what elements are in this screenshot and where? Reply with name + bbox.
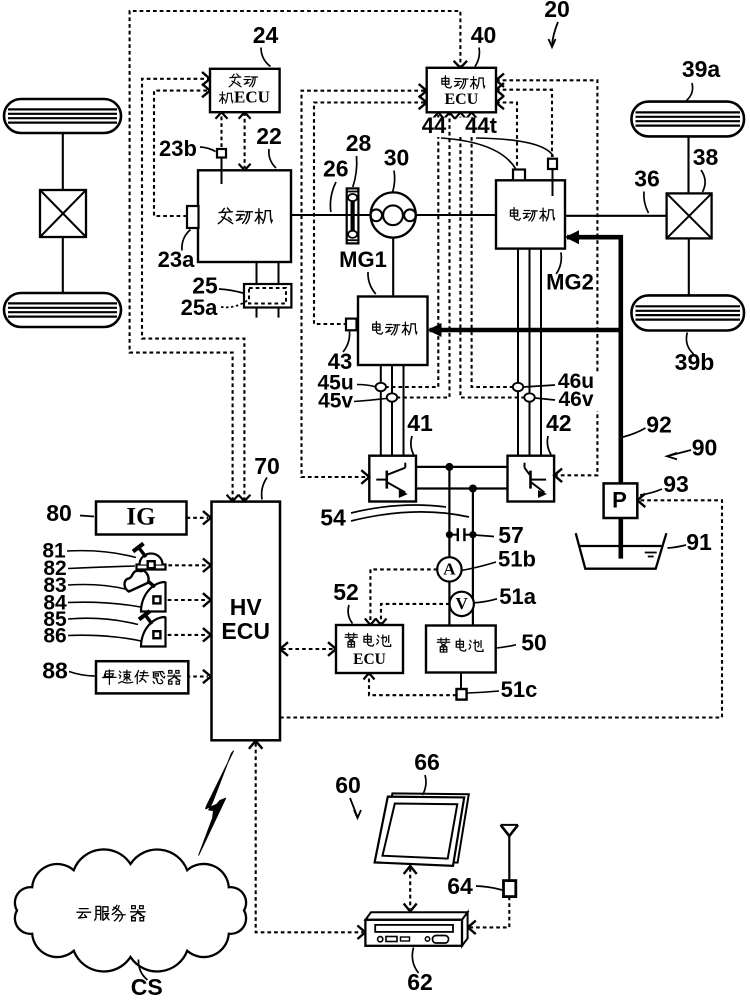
arrow 46v line into ECU bottom (455, 112, 466, 119)
arrow 20 (552, 22, 558, 45)
svg-text:25a: 25a (181, 295, 218, 320)
svg-text:P: P (612, 487, 627, 512)
inverter 42 (508, 456, 555, 502)
IG switch 80 box (96, 502, 187, 535)
navigation unit slot (375, 925, 453, 932)
engine ECU 24 box (210, 69, 280, 112)
svg-text:23b: 23b (159, 136, 197, 161)
front-left axle upper segment (62, 133, 64, 190)
leader 46u (524, 385, 556, 387)
svg-text:36: 36 (634, 166, 660, 192)
oil line 92: pump to MG2 (thick) (567, 237, 621, 484)
engine 22 box (198, 170, 291, 262)
wire current sensor 45v to motor-ECU (dashed) (397, 114, 450, 398)
svg-text:42: 42 (546, 410, 572, 436)
DC bus lower rail (416, 487, 508, 489)
sensor 23b square (217, 149, 226, 158)
arrow into engine ECU left upper (202, 72, 210, 86)
wire MG2 connector 44 to motor-ECU (dashed) (496, 103, 517, 169)
svg-text:60: 60 (335, 772, 361, 798)
wire HV-ECU to oil pump P (dashed) (280, 500, 722, 717)
svg-text:54: 54 (320, 505, 346, 531)
wire current sensor 46v to motor-ECU (dashed) (460, 114, 525, 398)
lightning bolt (wireless link) (199, 751, 234, 855)
arrow into motor ECU right 2 (496, 83, 504, 97)
current sensor 46u (513, 383, 523, 391)
svg-text:39a: 39a (682, 56, 721, 82)
current sensor 45v (387, 393, 397, 401)
svg-text:88: 88 (42, 658, 68, 684)
svg-text:MG1: MG1 (339, 247, 387, 272)
shaft circle30 down to MG1 (392, 238, 394, 297)
arrow into engine ECU bottom (from engine line) (239, 112, 251, 119)
svg-text:MG2: MG2 (546, 269, 594, 294)
wire monitor 66 to navigation unit (dashed, bidirectional) (409, 868, 411, 909)
leader 66 (423, 775, 426, 795)
arrow into HV ECU bottom (249, 741, 263, 749)
svg-text:HV: HV (230, 594, 263, 620)
arrow into HV ECU top (right) (238, 495, 250, 502)
leader 62 (412, 948, 418, 974)
leader 25 (219, 289, 243, 293)
svg-text:52: 52 (333, 579, 359, 605)
rear axle lower segment (688, 238, 690, 295)
battery output line to 51c (460, 673, 462, 690)
damper 28 bottom cap (347, 239, 359, 241)
MG2 phase lines to inverter 42 (517, 249, 519, 456)
catalyst 25 box (244, 284, 291, 308)
DC bus upper rail (416, 466, 508, 468)
label 44t (459, 118, 504, 138)
damper 28 bottom piston (348, 231, 357, 238)
MG2 temp sensor 44t (548, 159, 557, 169)
leader 51c (468, 691, 500, 693)
HV ECU 70 box (212, 502, 281, 741)
svg-text:A: A (443, 559, 456, 578)
leader 85 (68, 618, 138, 624)
svg-text:39b: 39b (675, 349, 715, 375)
arrow into pump P right (637, 494, 645, 508)
arrow into HV ECU top (left) (227, 495, 239, 502)
brake pedal icon (83/84) (141, 582, 166, 612)
leader 64 (476, 886, 502, 890)
leader 88 (69, 672, 95, 677)
leader 40 (475, 48, 479, 67)
svg-text:66: 66 (414, 749, 440, 775)
svg-text:64: 64 (447, 873, 473, 899)
leader 92 (623, 428, 646, 437)
leader 84 (68, 602, 141, 607)
wire sensor 23b to engine-ECU (dashed) (220, 114, 222, 147)
battery sensor 51c (457, 689, 467, 700)
wire HV-ECU to battery-ECU (dashed, bidirectional) (282, 648, 334, 650)
svg-text:44: 44 (422, 113, 447, 138)
MG1 phase lines to inverter 41 (380, 365, 382, 456)
navigation unit button E (433, 936, 449, 944)
svg-text:51c: 51c (501, 677, 538, 702)
label 44 (421, 118, 448, 138)
leader 91 (668, 545, 687, 548)
oil level line (579, 545, 662, 547)
wire current sensor 46u to motor-ECU (dashed) (472, 114, 514, 387)
svg-text:90: 90 (692, 435, 718, 461)
svg-text:CS: CS (131, 974, 163, 1000)
leader 57 (475, 535, 495, 537)
leader 44t (476, 138, 554, 157)
MG2 motor box (496, 180, 565, 248)
arrow into engine top (239, 164, 251, 171)
wire voltmeter 51a to battery-ECU (dashed) (381, 604, 450, 623)
sensor 23b stem into engine (221, 158, 223, 185)
leader MG2 (556, 252, 561, 274)
wire antenna 64 to navigation unit (dashed) (470, 897, 509, 928)
leader 26 (330, 182, 336, 212)
leader 50 (497, 645, 517, 648)
MG1 connector 43 (346, 319, 357, 331)
pedal sensor icon (85/86) (141, 617, 166, 647)
capacitor 57 (449, 534, 457, 536)
arrow into motor ECU top (454, 61, 468, 68)
arrow into navigation unit left (357, 926, 365, 940)
front-left axle lower segment (62, 237, 64, 293)
antenna 64 V element (501, 825, 518, 836)
svg-text:V: V (456, 594, 469, 613)
leader 45v (354, 399, 386, 402)
arrow into motor ECU right 3 (496, 96, 504, 109)
arrow into navigation unit right (468, 921, 476, 935)
front differential (40, 190, 86, 237)
power split device 30 left pinion (370, 209, 382, 221)
leader 24 (261, 48, 271, 67)
leader 43 (343, 332, 350, 352)
MG1 motor box (358, 297, 428, 366)
leader 45u (357, 385, 376, 388)
ammeter 51b (437, 557, 461, 581)
damper 28 rod (351, 201, 355, 232)
svg-text:62: 62 (407, 969, 433, 995)
wire sensor 23a to engine-ECU (dashed) (154, 91, 208, 216)
leader 51b (462, 562, 497, 571)
svg-text:IG: IG (126, 504, 155, 531)
leader 44 (441, 138, 516, 169)
wire HV-ECU to engine-ECU (dashed) (142, 79, 244, 501)
arrow into engine ECU left lower (202, 84, 210, 98)
svg-text:28: 28 (346, 130, 372, 156)
wire MG1 connector 43 to motor-ECU (dashed) (314, 103, 425, 325)
leader 83 (68, 585, 125, 590)
44t stem into MG2 (552, 169, 554, 196)
catalyst sensor 25a (dashed box) (249, 288, 286, 304)
oil suction: pump to tank (thick) (618, 518, 623, 559)
wire pedal sensor 3 to HV-ECU (dashed) (161, 634, 208, 636)
oil level mark (645, 552, 657, 554)
wire ammeter 51b to battery-ECU (dashed) (370, 569, 437, 623)
arrow into motor ECU left lower (419, 96, 427, 109)
wire motor-ECU to inverter 42 (dashed) (496, 80, 597, 475)
leader CS (138, 960, 147, 981)
arrow into inverter 42 right (554, 469, 562, 483)
oil pump P 93 box (604, 483, 638, 518)
front-left tire (top) (4, 99, 121, 133)
damper 28 top cap (347, 191, 359, 193)
oil arrow into MG2 (565, 230, 579, 244)
leader 42 (547, 436, 551, 455)
wire brake pedal sensor to HV-ECU (dashed) (161, 599, 208, 601)
svg-text:57: 57 (498, 522, 524, 548)
power split device 30 sun gear (383, 205, 403, 225)
leader 30 (393, 171, 395, 193)
battery 50 box (426, 626, 496, 673)
leader 36 (644, 192, 649, 214)
leader 41 (411, 436, 414, 455)
svg-text:46v: 46v (558, 388, 593, 411)
arrow into motor ECU right 1 (496, 74, 504, 88)
svg-text:40: 40 (471, 22, 497, 48)
DC rail left vertical to battery (448, 467, 450, 626)
leader 39b (686, 333, 693, 355)
sensor 23a box (187, 206, 199, 228)
leader 23b (200, 147, 216, 152)
wire IG to HV-ECU (dashed) (187, 517, 209, 519)
svg-text:20: 20 (544, 0, 570, 22)
svg-text:86: 86 (43, 625, 66, 648)
leader MG1 (368, 272, 376, 294)
current sensor 46v (524, 393, 534, 401)
svg-text:91: 91 (686, 529, 712, 555)
oil arrow into MG1 (428, 323, 442, 337)
svg-text:43: 43 (328, 349, 352, 374)
cloud server CS (15, 849, 246, 971)
svg-text:51a: 51a (499, 584, 536, 609)
svg-text:70: 70 (254, 453, 280, 479)
arrow 46u line into ECU bottom (466, 112, 477, 119)
svg-text:26: 26 (323, 156, 349, 182)
wire 44t sensor to motor-ECU (dashed) (496, 90, 552, 157)
shaft: power split to MG2 (416, 214, 496, 216)
rear tire 39b (632, 295, 745, 330)
arrow 45v line into ECU bottom (444, 112, 455, 119)
leader 51a (475, 599, 498, 603)
leader 93 (640, 489, 662, 495)
oil tank 91 (576, 533, 667, 569)
leader 54 upper (351, 505, 446, 513)
arrow into engine ECU bottom (216, 112, 228, 119)
leader 52 (348, 605, 352, 624)
navigation unit button D (425, 937, 429, 941)
wire accel pedal sensor to HV-ECU (dashed) (155, 564, 208, 566)
engine output shaft 26 (291, 214, 371, 216)
rear differential 38 (667, 193, 712, 238)
monitor 66 front face (375, 797, 465, 866)
navigation unit button B (386, 937, 397, 942)
front-left tire (bottom) (4, 293, 121, 327)
navigation unit 62 side face (462, 912, 468, 946)
shaft 36 MG2 to differential (565, 215, 667, 217)
leader 46v (535, 398, 555, 400)
leader 22 (269, 149, 276, 168)
oil branch to MG1 (thick) (430, 328, 621, 333)
damper 28 housing (347, 188, 359, 243)
arrow into motor ECU left upper (419, 84, 427, 98)
speed sensor 88 box (96, 661, 188, 693)
junction dot lower rail (469, 485, 477, 493)
svg-text:ECU: ECU (445, 91, 479, 108)
leader 82 (68, 566, 135, 569)
svg-text:ECU: ECU (221, 618, 270, 644)
wire motor-ECU to inverter 41 (dashed) (302, 91, 425, 477)
svg-text:44t: 44t (465, 113, 497, 138)
leader 38 (701, 170, 705, 192)
arrow into inverter 41 left (361, 470, 369, 484)
engine mount lines to 25 (256, 262, 258, 318)
current sensor 45u (376, 383, 386, 391)
arrow 45u line into ECU bottom (433, 112, 444, 119)
junction dot upper rail (445, 463, 453, 471)
power split device 30 outer (371, 192, 416, 237)
leader 23a (182, 230, 191, 251)
svg-text:92: 92 (646, 412, 672, 438)
monitor 66 screen (383, 804, 458, 859)
accelerator pedal icon (81/82) (137, 565, 166, 570)
wire speed sensor to HV-ECU (dashed) (187, 675, 209, 677)
svg-text:50: 50 (521, 629, 547, 655)
leader 28 (353, 156, 357, 187)
wire HV-ECU to navigation unit 62 (dashed) (256, 743, 363, 932)
navigation unit 62 front face (365, 920, 462, 946)
antenna unit 64 box (504, 881, 516, 897)
motor ECU 40 box (427, 68, 496, 113)
battery ECU 52 box (336, 625, 403, 673)
DC rail right vertical to battery (472, 489, 474, 626)
leader 39a (687, 83, 693, 101)
antenna mast (508, 836, 510, 881)
wire battery sensor 51c to battery-ECU (dashed) (369, 675, 457, 695)
svg-text:24: 24 (253, 22, 279, 48)
label 46v (554, 390, 600, 411)
label 45u (313, 374, 358, 394)
inverter 41 (369, 456, 416, 502)
svg-text:38: 38 (693, 144, 719, 170)
leader 25a (dotted) (221, 300, 248, 307)
leader 86 (68, 635, 141, 641)
svg-text:41: 41 (407, 410, 433, 436)
svg-text:ECU: ECU (353, 651, 386, 668)
leader 81 (67, 551, 136, 558)
wire engine-ECU to engine (dashed) (244, 112, 246, 168)
label 45v (313, 392, 358, 412)
power split device 30 right pinion (404, 209, 416, 221)
voltmeter 51a (450, 592, 474, 616)
leader 80 (80, 516, 94, 517)
leader 70 (262, 478, 267, 500)
rear axle upper segment (687, 136, 689, 193)
arrow 60 (350, 798, 357, 816)
svg-text:30: 30 (384, 145, 410, 171)
navigation unit button A (378, 937, 383, 942)
svg-text:93: 93 (663, 471, 689, 497)
wire HV-ECU to motor-ECU via top (dashed) (130, 11, 461, 501)
navigation unit button C (401, 937, 410, 941)
leader 54 lower (351, 512, 469, 521)
wire current sensor 45u to motor-ECU (dashed) (385, 114, 438, 387)
svg-text:ECU: ECU (234, 87, 270, 106)
svg-text:80: 80 (46, 500, 72, 526)
monitor 66 back edge (379, 793, 469, 862)
svg-text:23a: 23a (158, 247, 195, 272)
MG2 connector 44 (513, 170, 525, 181)
navigation unit 62 top face (365, 912, 467, 920)
damper 28 top piston (348, 194, 357, 201)
arrow 90 (670, 450, 691, 456)
svg-text:22: 22 (256, 123, 282, 149)
svg-text:45v: 45v (318, 390, 353, 413)
label 46u (554, 372, 600, 393)
svg-text:51b: 51b (498, 546, 536, 571)
rear tire 39a (632, 102, 745, 137)
